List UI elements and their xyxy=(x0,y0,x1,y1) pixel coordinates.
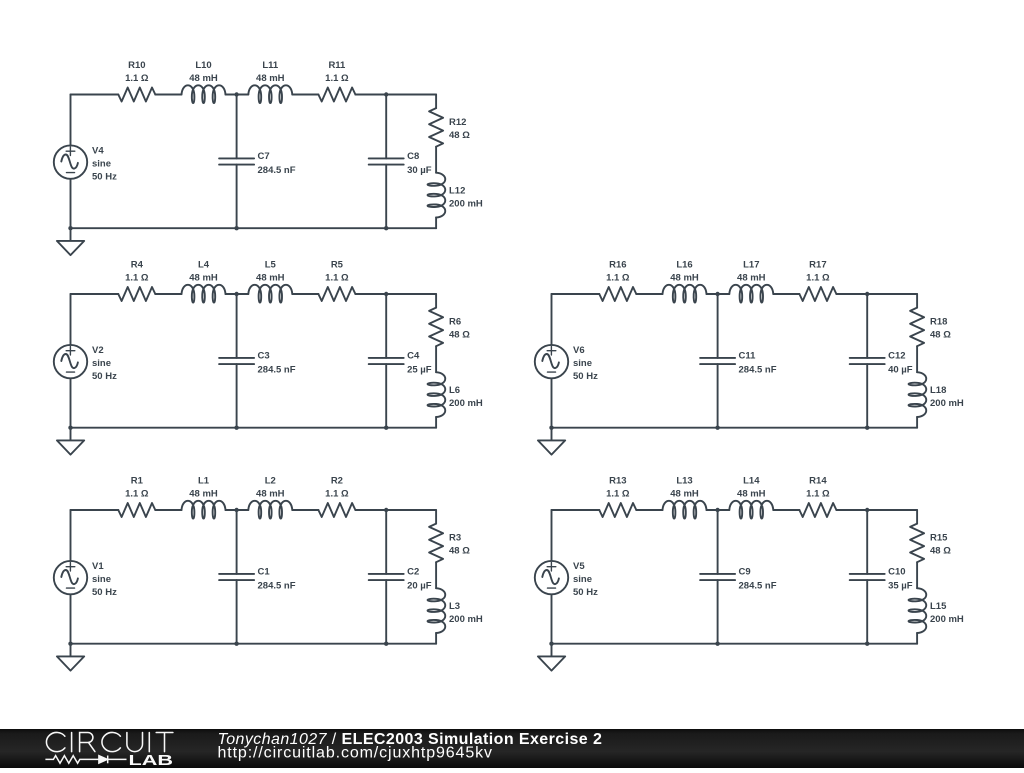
svg-text:200 mH: 200 mH xyxy=(449,398,483,409)
wire L14 to R14 xyxy=(773,509,799,511)
svg-text:L5: L5 xyxy=(265,260,277,271)
wire V5 down to ground rail xyxy=(551,594,553,643)
svg-text:R10: R10 xyxy=(128,60,145,71)
svg-text:1.1 Ω: 1.1 Ω xyxy=(606,489,630,500)
wire R10 to L10 xyxy=(155,94,181,96)
wire C10 down to rail xyxy=(866,580,868,644)
capacitor C1 plates xyxy=(219,574,254,580)
junction node bottom at C9 xyxy=(715,642,719,646)
wire bottom ground rail xyxy=(552,427,918,429)
svg-text:C8: C8 xyxy=(407,151,419,162)
capacitor C8 plates xyxy=(369,158,404,164)
svg-text:L13: L13 xyxy=(676,476,692,487)
wire L4 to L5 through node xyxy=(226,293,249,295)
wire node down to C11 xyxy=(717,294,719,358)
wire V1 top-left to R1 xyxy=(71,509,119,511)
wire V4 top-left to R10 xyxy=(71,94,119,96)
svg-text:V4: V4 xyxy=(92,146,104,157)
wire V2 down to ground rail xyxy=(70,378,72,427)
svg-text:200 mH: 200 mH xyxy=(449,614,483,625)
wire L15 to bottom rail xyxy=(916,633,918,644)
svg-text:25 µF: 25 µF xyxy=(407,364,432,375)
svg-text:48 mH: 48 mH xyxy=(189,489,218,500)
junction node bottom-left (ground) xyxy=(549,642,553,646)
svg-text:L11: L11 xyxy=(262,60,279,71)
svg-text:R17: R17 xyxy=(809,260,826,271)
svg-text:L15: L15 xyxy=(930,601,947,612)
junction node bottom at C4 xyxy=(384,426,388,430)
wire C2 down to rail xyxy=(385,580,387,644)
wire R12 to L12 xyxy=(435,147,437,173)
svg-text:http://circuitlab.com/cjuxhtp9: http://circuitlab.com/cjuxhtp9645kv xyxy=(218,745,493,762)
svg-text:C7: C7 xyxy=(258,151,270,162)
wire top-left corner down to V2 xyxy=(70,294,72,345)
inductor L17 (horizontal coil) xyxy=(729,285,773,303)
voltage source V2 (sine) xyxy=(54,345,87,378)
inductor L13 (horizontal coil) xyxy=(663,501,707,519)
wire V1 down to ground rail xyxy=(70,594,72,643)
wire right corner down to R12 xyxy=(435,95,437,109)
svg-text:1.1 Ω: 1.1 Ω xyxy=(125,73,149,84)
inductor L3 (vertical coil) xyxy=(428,588,446,633)
wire R6 to L6 xyxy=(435,346,437,372)
junction node bottom at C8 xyxy=(384,226,388,230)
wire R4 to L4 xyxy=(155,293,181,295)
wire V5 top-left to R13 xyxy=(552,509,600,511)
wire node down to C4 xyxy=(385,294,387,358)
wire C4 down to rail xyxy=(385,364,387,428)
svg-text:R18: R18 xyxy=(930,317,947,328)
resistor R4 (horizontal) xyxy=(118,287,155,301)
resistor R6 (vertical) xyxy=(429,308,443,347)
wire R17 to right corner xyxy=(836,293,917,295)
inductor L14 (horizontal coil) xyxy=(729,501,773,519)
svg-text:sine: sine xyxy=(92,159,111,170)
wire V6 down to ground rail xyxy=(551,378,553,427)
svg-text:LAB: LAB xyxy=(129,752,174,768)
svg-text:20 µF: 20 µF xyxy=(407,580,432,591)
wire node down to C9 xyxy=(717,510,719,574)
CircuitLab logo: CIRCUIT wordmark xyxy=(46,732,172,751)
wire L10 to L11 through node xyxy=(226,94,249,96)
resistor R18 (vertical) xyxy=(910,308,924,347)
svg-text:C4: C4 xyxy=(407,351,420,362)
svg-text:L17: L17 xyxy=(743,260,759,271)
wire right corner down to R15 xyxy=(916,510,918,524)
inductor L10 (horizontal coil) xyxy=(182,85,226,103)
svg-text:L16: L16 xyxy=(676,260,692,271)
wire bottom ground rail xyxy=(71,227,437,229)
svg-text:284.5 nF: 284.5 nF xyxy=(258,364,296,375)
svg-text:C12: C12 xyxy=(888,351,905,362)
svg-text:R15: R15 xyxy=(930,533,948,544)
svg-text:R12: R12 xyxy=(449,117,466,128)
junction node top at C12 xyxy=(865,292,869,296)
wire L12 to bottom rail xyxy=(435,218,437,229)
svg-text:V1: V1 xyxy=(92,561,104,572)
junction node top at C11 xyxy=(715,292,719,296)
wire node down to C3 xyxy=(236,294,238,358)
wire L3 to bottom rail xyxy=(435,633,437,644)
svg-text:C9: C9 xyxy=(739,567,751,578)
resistor R2 (horizontal) xyxy=(318,503,355,517)
svg-text:48 mH: 48 mH xyxy=(670,273,699,284)
voltage source V6 (sine) xyxy=(535,345,568,378)
capacitor C10 plates xyxy=(850,574,885,580)
svg-text:R13: R13 xyxy=(609,476,626,487)
svg-text:48 Ω: 48 Ω xyxy=(930,546,951,557)
ground symbol below V4 xyxy=(57,228,84,255)
wire C7 down to rail xyxy=(236,165,238,229)
svg-text:L4: L4 xyxy=(198,260,210,271)
svg-text:1.1 Ω: 1.1 Ω xyxy=(325,73,349,84)
inductor L6 (vertical coil) xyxy=(428,372,446,417)
svg-text:V6: V6 xyxy=(573,345,585,356)
wire L13 to L14 through node xyxy=(707,509,730,511)
wire bottom ground rail xyxy=(71,643,437,645)
svg-text:1.1 Ω: 1.1 Ω xyxy=(325,273,349,284)
svg-text:R2: R2 xyxy=(331,476,343,487)
capacitor C3 plates xyxy=(219,358,254,364)
junction node top at C1 xyxy=(234,508,238,512)
junction node bottom at C11 xyxy=(715,426,719,430)
junction node top at C7 xyxy=(234,92,238,96)
wire R13 to L13 xyxy=(636,509,662,511)
svg-text:C10: C10 xyxy=(888,567,905,578)
junction node top at C4 xyxy=(384,292,388,296)
svg-text:50 Hz: 50 Hz xyxy=(573,587,598,598)
svg-text:1.1 Ω: 1.1 Ω xyxy=(125,273,149,284)
wire C8 down to rail xyxy=(385,165,387,229)
wire L6 to bottom rail xyxy=(435,417,437,428)
wire L18 to bottom rail xyxy=(916,417,918,428)
inductor L1 (horizontal coil) xyxy=(182,501,226,519)
wire top-left corner down to V5 xyxy=(551,510,553,561)
wire top-left corner down to V1 xyxy=(70,510,72,561)
svg-text:C2: C2 xyxy=(407,567,419,578)
junction node bottom at C3 xyxy=(234,426,238,430)
svg-text:R14: R14 xyxy=(809,476,827,487)
svg-text:284.5 nF: 284.5 nF xyxy=(258,580,296,591)
wire R5 to right corner xyxy=(355,293,436,295)
svg-text:48 mH: 48 mH xyxy=(256,489,285,500)
wire node down to C10 xyxy=(866,510,868,574)
svg-text:R6: R6 xyxy=(449,317,461,328)
svg-text:1.1 Ω: 1.1 Ω xyxy=(125,489,149,500)
voltage source V1 (sine) xyxy=(54,561,87,594)
junction node top at C3 xyxy=(234,292,238,296)
svg-text:35 µF: 35 µF xyxy=(888,580,913,591)
resistor R15 (vertical) xyxy=(910,524,924,563)
wire L1 to L2 through node xyxy=(226,509,249,511)
capacitor C7 plates xyxy=(219,158,254,164)
svg-text:284.5 nF: 284.5 nF xyxy=(739,580,777,591)
svg-text:50 Hz: 50 Hz xyxy=(573,371,598,382)
junction node bottom at C12 xyxy=(865,426,869,430)
svg-text:48 Ω: 48 Ω xyxy=(449,546,470,557)
svg-text:50 Hz: 50 Hz xyxy=(92,587,117,598)
wire R16 to L16 xyxy=(636,293,662,295)
junction node top at C10 xyxy=(865,508,869,512)
wire bottom ground rail xyxy=(552,643,918,645)
svg-text:1.1 Ω: 1.1 Ω xyxy=(606,273,630,284)
junction node top at C9 xyxy=(715,508,719,512)
CircuitLab logo: resistor-diode squiggle xyxy=(45,756,126,764)
wire V4 down to ground rail xyxy=(70,179,72,228)
wire V6 top-left to R16 xyxy=(552,293,600,295)
svg-text:1.1 Ω: 1.1 Ω xyxy=(806,489,830,500)
junction node top at C8 xyxy=(384,92,388,96)
wire R14 to right corner xyxy=(836,509,917,511)
wire C11 down to rail xyxy=(717,364,719,428)
wire node down to C8 xyxy=(385,95,387,159)
svg-text:L18: L18 xyxy=(930,385,946,396)
svg-text:48 Ω: 48 Ω xyxy=(449,330,470,341)
resistor R5 (horizontal) xyxy=(318,287,355,301)
capacitor C9 plates xyxy=(700,574,735,580)
wire C9 down to rail xyxy=(717,580,719,644)
junction node bottom-left (ground) xyxy=(68,426,72,430)
wire right corner down to R3 xyxy=(435,510,437,524)
wire top-left corner down to V6 xyxy=(551,294,553,345)
svg-text:200 mH: 200 mH xyxy=(930,398,964,409)
wire R2 to right corner xyxy=(355,509,436,511)
junction node bottom-left (ground) xyxy=(68,226,72,230)
svg-text:L10: L10 xyxy=(195,60,211,71)
svg-text:48 mH: 48 mH xyxy=(256,73,285,84)
ground symbol below V6 xyxy=(538,428,565,455)
svg-text:30 µF: 30 µF xyxy=(407,165,432,176)
voltage source V4 (sine) xyxy=(54,145,87,178)
svg-text:L6: L6 xyxy=(449,385,460,396)
wire C1 down to rail xyxy=(236,580,238,644)
svg-text:48 mH: 48 mH xyxy=(256,273,285,284)
svg-text:C3: C3 xyxy=(258,351,270,362)
resistor R3 (vertical) xyxy=(429,524,443,563)
svg-text:200 mH: 200 mH xyxy=(449,199,483,210)
wire node down to C2 xyxy=(385,510,387,574)
junction node top at C2 xyxy=(384,508,388,512)
inductor L16 (horizontal coil) xyxy=(663,285,707,303)
svg-text:L2: L2 xyxy=(265,476,276,487)
svg-text:L14: L14 xyxy=(743,476,760,487)
junction node bottom at C2 xyxy=(384,642,388,646)
inductor L12 (vertical coil) xyxy=(428,173,446,218)
capacitor C4 plates xyxy=(369,358,404,364)
svg-text:50 Hz: 50 Hz xyxy=(92,172,117,183)
wire R1 to L1 xyxy=(155,509,181,511)
wire L11 to R11 xyxy=(292,94,318,96)
wire L2 to R2 xyxy=(292,509,318,511)
resistor R12 (vertical) xyxy=(429,108,443,147)
ground symbol below V5 xyxy=(538,644,565,671)
junction node bottom-left (ground) xyxy=(549,426,553,430)
svg-text:V2: V2 xyxy=(92,345,104,356)
wire L17 to R17 xyxy=(773,293,799,295)
svg-text:R16: R16 xyxy=(609,260,626,271)
wire node down to C12 xyxy=(866,294,868,358)
wire V2 top-left to R4 xyxy=(71,293,119,295)
svg-text:R4: R4 xyxy=(131,260,144,271)
svg-text:48 mH: 48 mH xyxy=(670,489,699,500)
svg-text:R3: R3 xyxy=(449,533,461,544)
svg-text:L3: L3 xyxy=(449,601,460,612)
svg-text:48 Ω: 48 Ω xyxy=(930,330,951,341)
junction node bottom at C10 xyxy=(865,642,869,646)
svg-text:sine: sine xyxy=(92,358,111,369)
svg-text:R5: R5 xyxy=(331,260,344,271)
svg-text:48 mH: 48 mH xyxy=(737,273,766,284)
svg-text:C11: C11 xyxy=(739,351,757,362)
wire right corner down to R6 xyxy=(435,294,437,308)
svg-text:1.1 Ω: 1.1 Ω xyxy=(806,273,830,284)
resistor R16 (horizontal) xyxy=(599,287,636,301)
svg-text:48 Ω: 48 Ω xyxy=(449,130,470,141)
resistor R14 (horizontal) xyxy=(799,503,836,517)
svg-text:L12: L12 xyxy=(449,186,465,197)
resistor R11 (horizontal) xyxy=(318,88,355,102)
svg-text:40 µF: 40 µF xyxy=(888,364,913,375)
ground symbol below V2 xyxy=(57,428,84,455)
wire top-left corner down to V4 xyxy=(70,95,72,146)
junction node bottom at C1 xyxy=(234,642,238,646)
inductor L18 (vertical coil) xyxy=(909,372,927,417)
wire bottom ground rail xyxy=(71,427,437,429)
svg-text:sine: sine xyxy=(573,574,592,585)
wire R11 to right corner xyxy=(355,94,436,96)
wire L5 to R5 xyxy=(292,293,318,295)
wire C12 down to rail xyxy=(866,364,868,428)
svg-text:1.1 Ω: 1.1 Ω xyxy=(325,489,349,500)
svg-text:R1: R1 xyxy=(131,476,144,487)
wire right corner down to R18 xyxy=(916,294,918,308)
svg-text:sine: sine xyxy=(573,358,592,369)
wire R15 to L15 xyxy=(916,562,918,588)
wire L16 to L17 through node xyxy=(707,293,730,295)
voltage source V5 (sine) xyxy=(535,561,568,594)
ground symbol below V1 xyxy=(57,644,84,671)
capacitor C12 plates xyxy=(850,358,885,364)
svg-text:48 mH: 48 mH xyxy=(737,489,766,500)
svg-text:284.5 nF: 284.5 nF xyxy=(739,364,777,375)
resistor R17 (horizontal) xyxy=(799,287,836,301)
wire C3 down to rail xyxy=(236,364,238,428)
resistor R1 (horizontal) xyxy=(118,503,155,517)
capacitor C11 plates xyxy=(700,358,735,364)
junction node bottom at C7 xyxy=(234,226,238,230)
svg-text:C1: C1 xyxy=(258,567,271,578)
svg-text:50 Hz: 50 Hz xyxy=(92,371,117,382)
svg-text:sine: sine xyxy=(92,574,111,585)
resistor R13 (horizontal) xyxy=(599,503,636,517)
junction node bottom-left (ground) xyxy=(68,642,72,646)
resistor R10 (horizontal) xyxy=(118,88,155,102)
inductor L4 (horizontal coil) xyxy=(182,285,226,303)
wire R18 to L18 xyxy=(916,346,918,372)
svg-text:L1: L1 xyxy=(198,476,210,487)
svg-text:200 mH: 200 mH xyxy=(930,614,964,625)
wire R3 to L3 xyxy=(435,562,437,588)
wire node down to C1 xyxy=(236,510,238,574)
svg-text:48 mH: 48 mH xyxy=(189,273,218,284)
inductor L2 (horizontal coil) xyxy=(248,501,292,519)
capacitor C2 plates xyxy=(369,574,404,580)
inductor L5 (horizontal coil) xyxy=(248,285,292,303)
svg-text:284.5 nF: 284.5 nF xyxy=(258,165,296,176)
inductor L11 (horizontal coil) xyxy=(248,85,292,103)
svg-text:R11: R11 xyxy=(328,60,346,71)
wire node down to C7 xyxy=(236,95,238,159)
inductor L15 (vertical coil) xyxy=(909,588,927,633)
svg-text:48 mH: 48 mH xyxy=(189,73,218,84)
svg-text:V5: V5 xyxy=(573,561,585,572)
